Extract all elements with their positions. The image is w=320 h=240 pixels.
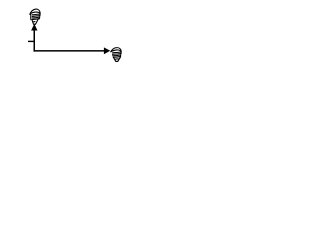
node A doodle (top beehive sketch) xyxy=(30,9,40,24)
wire: vertical segment from node A down xyxy=(34,30,36,52)
arrowhead pointing up at node A xyxy=(32,25,37,31)
arrowhead pointing right at node B xyxy=(104,48,109,54)
node B doodle (right beehive sketch) xyxy=(111,48,121,62)
tick mark on vertical wire xyxy=(28,41,34,42)
wire: horizontal segment to node B xyxy=(34,50,105,52)
